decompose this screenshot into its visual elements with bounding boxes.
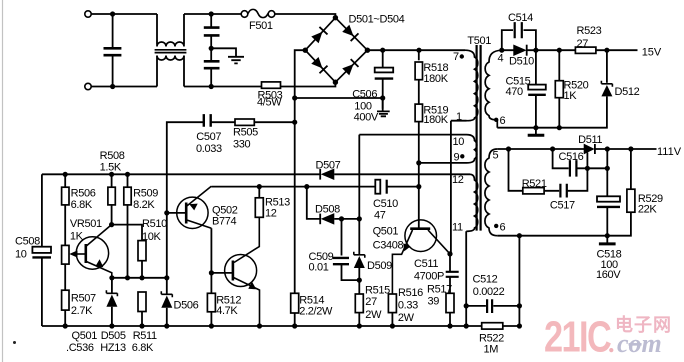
svg-text:D509: D509 (367, 260, 392, 272)
node R520 bottom (557, 125, 562, 130)
watermark 21IC (544, 312, 611, 361)
pin 12 (452, 174, 464, 186)
svg-text:C507: C507 (196, 131, 221, 143)
pin 5 (493, 149, 499, 161)
resistor R505 (233, 119, 258, 151)
capacitor C511 (414, 254, 459, 293)
node R520 top (557, 48, 562, 53)
wire Q502 collector down (210, 228, 212, 293)
pin 1 (456, 111, 462, 123)
svg-text:R509: R509 (133, 188, 158, 200)
node D512 top (604, 48, 609, 53)
node bridge right vertex (365, 48, 370, 53)
resistor R520 (555, 50, 588, 128)
svg-text:R521: R521 (522, 178, 547, 190)
svg-text:180K: 180K (423, 73, 448, 85)
svg-text:6: 6 (500, 115, 506, 127)
svg-text:4: 4 (498, 53, 504, 65)
pin 7 (453, 51, 464, 63)
capacitor C515 (506, 50, 546, 128)
resistor R517 (427, 283, 454, 326)
node rail Q503 emitter (257, 323, 262, 328)
svg-text:C510: C510 (373, 198, 398, 210)
wire Q502 emitter to C510 bus (211, 186, 375, 188)
svg-text:21IC: 21IC (544, 312, 611, 361)
label 15V output (642, 47, 662, 59)
node C514 left (499, 48, 504, 53)
node cap pair bottom (209, 84, 214, 89)
wire DC plus from bridge (367, 49, 465, 51)
svg-text:R510: R510 (142, 218, 167, 230)
node secondary rail C512 (517, 233, 522, 238)
AC input terminal top (85, 11, 91, 17)
svg-text:C514: C514 (508, 12, 533, 24)
node bridge bottom vertex (333, 80, 338, 85)
transformer T501 core (467, 35, 491, 231)
label 111V output (657, 146, 682, 158)
node Q501b collector R508 (109, 222, 114, 227)
node C510 left (304, 184, 309, 189)
svg-text:D510: D510 (509, 56, 534, 68)
wire primary ground rail (42, 325, 520, 327)
resistor R522 (479, 323, 504, 356)
transformer T501 winding 12-11 (466, 174, 478, 231)
svg-text:47: 47 (374, 210, 386, 222)
wire top AC rail (91, 14, 335, 18)
node cap pair mid (209, 46, 214, 51)
node rail R515 (357, 323, 362, 328)
node R513 top (257, 184, 262, 189)
capacitor C516 (553, 149, 588, 177)
diode D510 (509, 45, 534, 68)
label Q501 C536 (66, 330, 97, 354)
svg-text:R516: R516 (398, 287, 423, 299)
svg-text:7: 7 (453, 51, 459, 63)
diode D511 (578, 134, 602, 154)
svg-text:27: 27 (577, 38, 589, 50)
capacitor C514 (502, 12, 536, 50)
resistor R511 (138, 292, 146, 326)
svg-text:400V: 400V (354, 112, 379, 124)
zener D505 (106, 278, 117, 326)
node R518 top (416, 48, 421, 53)
transformer T501 primary winding 7-1 (465, 50, 478, 121)
node secondary rail C518 (605, 233, 610, 238)
capacitor C508 (15, 174, 51, 326)
resistor R507 (62, 264, 96, 326)
svg-text:6.8K: 6.8K (71, 199, 93, 211)
transformer T501 secondary winding 5-6 (485, 149, 497, 236)
node 111V rail C518 (605, 146, 610, 151)
node bridge left vertex (303, 48, 308, 53)
svg-text:10: 10 (453, 136, 465, 148)
node negative rail y122 (292, 120, 297, 125)
node C509 top (339, 216, 344, 221)
node rail R512 (209, 323, 214, 328)
pin 10 (453, 136, 465, 148)
svg-text:6: 6 (500, 221, 506, 233)
label R511 6.8K (132, 330, 157, 354)
resistor R516 (388, 287, 423, 326)
watermark com (617, 329, 662, 358)
node collector pin1 C511 (447, 251, 452, 256)
pin 9 (454, 152, 465, 164)
svg-text:6.8K: 6.8K (132, 342, 154, 354)
node negative rail y98 (292, 95, 297, 100)
svg-text:C3408: C3408 (373, 239, 404, 251)
wire base drive vertical (418, 163, 420, 228)
svg-text:10K: 10K (142, 231, 162, 243)
resistor R509 (124, 174, 158, 277)
pin 4 (498, 53, 504, 65)
resistor R529 (497, 149, 663, 236)
fuse F501 (241, 9, 275, 31)
svg-text:C512: C512 (473, 273, 498, 285)
svg-text:12: 12 (452, 174, 464, 186)
svg-text:180K: 180K (423, 114, 448, 126)
capacitor C517 (544, 168, 587, 211)
svg-text:39: 39 (428, 295, 440, 307)
transistor Q501 C3408 power switch (373, 220, 450, 294)
wire R508 to R510 (112, 225, 142, 241)
wire cap pair branch (210, 14, 212, 87)
svg-text:R506: R506 (71, 188, 96, 200)
svg-text:2.7K: 2.7K (71, 305, 93, 317)
svg-text:470: 470 (506, 86, 524, 98)
node rail R522 right (517, 323, 522, 328)
ground 15V return (528, 128, 545, 136)
capacitor C510 (373, 180, 419, 222)
node rail R514 (292, 323, 297, 328)
capacitor C512 (466, 273, 519, 313)
node R509 bottom (125, 275, 130, 280)
resistor R513 (234, 187, 290, 263)
transistor Q501 (2SC536 error amp) (76, 225, 112, 278)
svg-text:2.2/2W: 2.2/2W (299, 305, 333, 317)
svg-text:VR501: VR501 (70, 218, 102, 230)
transistor Q503 (225, 255, 260, 327)
wire pin9 line (419, 162, 467, 164)
svg-text:4700P: 4700P (414, 270, 444, 282)
node input cap top (110, 11, 115, 16)
wire pin1 drop (451, 121, 467, 254)
svg-text:4.7K: 4.7K (216, 305, 238, 317)
svg-text:C508: C508 (15, 236, 40, 248)
svg-text:R507: R507 (71, 293, 96, 305)
svg-text:R505: R505 (233, 127, 258, 139)
watermark dianziwang (615, 314, 672, 335)
node D509 C509 bottom junction (357, 278, 362, 283)
node R510 R511 junction (139, 275, 144, 280)
resistor R503 (257, 82, 283, 109)
resistor R512 (207, 293, 241, 326)
node C506 top (380, 48, 385, 53)
pin 6 lower (494, 221, 506, 233)
wire pin10 feedback (359, 134, 466, 136)
capacitor across AC input (104, 14, 122, 87)
node C515 ground (533, 125, 538, 130)
wire D508 row (307, 187, 360, 219)
node rail R517 (447, 323, 452, 328)
resistor R508 (100, 150, 125, 225)
svg-text:111V: 111V (657, 146, 682, 158)
diode D508 (315, 204, 340, 225)
diode D507 (316, 160, 341, 180)
wire secondary rail drop (518, 236, 520, 326)
svg-text:2W: 2W (398, 312, 415, 324)
svg-text:10: 10 (15, 249, 27, 261)
svg-text:8.2K: 8.2K (133, 199, 155, 211)
svg-text:1M: 1M (484, 343, 499, 355)
resistor R510 (138, 218, 167, 278)
left edge scan line (2, 0, 4, 362)
wire 15V rail (502, 49, 638, 51)
wire to chassis ground (211, 48, 236, 56)
wire Q503 base (211, 272, 232, 274)
svg-text:15V: 15V (642, 47, 662, 59)
capacitor lower of pair (204, 61, 220, 68)
node C506 bottom (380, 95, 385, 100)
label D505 HZ13 (100, 330, 126, 354)
node emitter bus right end (164, 275, 169, 280)
svg-text:Q501: Q501 (373, 226, 399, 238)
resistor R519 (415, 104, 449, 163)
svg-text:F501: F501 (249, 20, 273, 32)
svg-text:2W: 2W (365, 309, 382, 321)
node pin9 junction (416, 160, 421, 165)
AC input terminal bottom (85, 83, 91, 89)
resistor R523 (575, 25, 601, 53)
svg-text:0.0022: 0.0022 (473, 286, 505, 298)
wire C507 R505 branch (167, 122, 295, 295)
wire 111V rail (497, 148, 656, 150)
ground primary at C506 (377, 111, 390, 116)
node R508 top rail (109, 172, 114, 177)
svg-text:T501: T501 (467, 35, 491, 47)
wire Q502 base (167, 212, 185, 214)
node Q502 base branch (164, 210, 169, 215)
node C516 branch (550, 146, 555, 151)
svg-text:12: 12 (265, 208, 277, 220)
node Q503 base branch (209, 270, 214, 275)
svg-text:D511: D511 (578, 134, 602, 146)
svg-text:D512: D512 (615, 86, 640, 98)
svg-text:5: 5 (493, 149, 499, 161)
svg-text:100: 100 (354, 100, 372, 112)
bridge rectifier D501~D504 (305, 14, 404, 83)
node C512 right (517, 303, 522, 308)
svg-text:D507: D507 (316, 160, 341, 172)
wire emitter bus y278 (112, 277, 167, 279)
svg-text:330: 330 (233, 139, 251, 151)
wire bottom AC rail (91, 82, 335, 86)
svg-text:0.01: 0.01 (309, 262, 329, 274)
svg-text:HZ13: HZ13 (100, 342, 126, 354)
svg-text:R508: R508 (100, 150, 125, 162)
svg-text:B774: B774 (212, 216, 237, 228)
node C515 top (533, 48, 538, 53)
capacitor C506 (352, 50, 393, 123)
wire pin10 vertical drop (358, 135, 360, 219)
resistor R518 (415, 50, 449, 104)
node Q501b emitter (109, 275, 114, 280)
ground chassis (228, 57, 244, 64)
capacitor C507 (196, 114, 222, 155)
node rail D505 (109, 323, 114, 328)
svg-text:D505: D505 (101, 330, 126, 342)
transformer T501 feedback winding 10-9 (467, 135, 477, 163)
node rail R507 (63, 323, 68, 328)
node R506 top (63, 172, 68, 177)
node rail R511 (139, 323, 144, 328)
svg-text:0.33: 0.33 (398, 299, 418, 311)
wire negative rail from bridge left vertex (295, 50, 306, 293)
svg-text:22K: 22K (638, 204, 658, 216)
line-filter choke windings (155, 14, 187, 87)
node rail R522 left (464, 323, 469, 328)
svg-text:R523: R523 (577, 25, 602, 37)
svg-text:9: 9 (454, 152, 460, 164)
zener D506 (161, 291, 198, 326)
capacitor C509 (309, 219, 358, 280)
capacitor C518 (596, 149, 622, 281)
svg-text:R517: R517 (427, 283, 452, 295)
pin 11 (452, 222, 463, 234)
wire snubber link (587, 167, 607, 169)
node R509 top rail (125, 172, 130, 177)
svg-text:D501~D504: D501~D504 (349, 14, 405, 26)
node bridge top vertex (333, 15, 338, 20)
svg-text:.C536: .C536 (66, 342, 94, 354)
resistor R515 (355, 284, 390, 326)
svg-text:C516: C516 (559, 151, 584, 163)
svg-text:C517: C517 (550, 200, 575, 212)
wire negative link (295, 98, 383, 109)
wire pin11 drop (465, 231, 467, 326)
svg-text:11: 11 (452, 222, 463, 234)
transistor Q502 B774 (177, 186, 238, 228)
svg-text:1K: 1K (564, 90, 578, 102)
svg-text:com: com (617, 329, 662, 358)
node input cap bottom (110, 84, 115, 89)
svg-text:C511: C511 (414, 258, 438, 270)
ground 111V return (599, 236, 616, 244)
node C516 C517 junction (585, 166, 590, 171)
potentiometer VR501 (62, 218, 102, 264)
svg-text:D506: D506 (174, 299, 199, 311)
svg-text:27: 27 (365, 296, 377, 308)
capacitor upper of pair (204, 28, 220, 36)
resistor R514 (291, 293, 333, 326)
node C518 branch top (605, 166, 610, 171)
node rail D506 (164, 323, 169, 328)
svg-text:0.033: 0.033 (196, 143, 222, 155)
watermark .com (609, 329, 616, 358)
svg-text:160V: 160V (596, 269, 621, 281)
svg-text:1: 1 (456, 111, 462, 123)
svg-text:R515: R515 (365, 284, 390, 296)
node D509 top (357, 216, 362, 221)
svg-text:.: . (609, 329, 616, 358)
wire long bias rail y174 (42, 173, 470, 175)
node cap pair top (209, 11, 214, 16)
node C510 right (416, 184, 421, 189)
transformer T501 secondary winding 4-6 (485, 50, 502, 128)
resistor R521 (509, 149, 547, 194)
svg-text:D508: D508 (315, 204, 340, 216)
svg-text:Q501: Q501 (72, 330, 98, 342)
zener D509 (354, 219, 392, 294)
node R521 branch (506, 146, 511, 151)
svg-text:R511: R511 (133, 330, 157, 342)
pin 6 upper (494, 115, 506, 127)
node pin11 C512 (464, 303, 469, 308)
svg-text:1.5K: 1.5K (100, 161, 122, 173)
node rail R516 (390, 323, 395, 328)
node 111V rail R529 (628, 146, 633, 151)
zener D512 (497, 50, 639, 128)
resistor R506 (62, 174, 96, 245)
svg-text:4/5W: 4/5W (257, 97, 282, 109)
stray dot (13, 341, 16, 344)
